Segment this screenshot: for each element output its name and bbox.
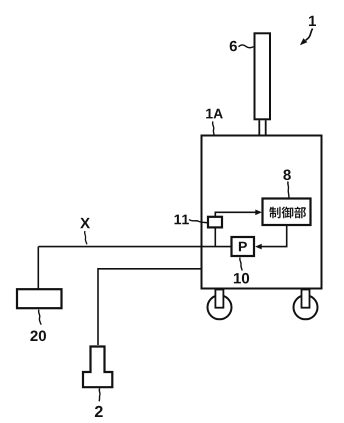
arrow leader for 1 bbox=[300, 29, 313, 46]
leader squiggle 10 bbox=[240, 258, 242, 271]
label P bbox=[239, 242, 247, 252]
rod 6 bbox=[255, 33, 271, 119]
wire below 11 bbox=[214, 228, 216, 247]
leader squiggle 6 bbox=[239, 45, 254, 48]
label 2 bbox=[95, 406, 103, 417]
pump box P 10 bbox=[232, 237, 255, 256]
leader squiggle 8 bbox=[288, 182, 289, 198]
sensor box 11 bbox=[208, 217, 222, 228]
plug 2 bbox=[83, 347, 112, 388]
label 1A bbox=[206, 109, 223, 119]
wire X bbox=[38, 246, 231, 248]
control unit text bbox=[269, 207, 306, 219]
wire 11 to control unit bbox=[215, 210, 262, 217]
control unit box 8 bbox=[263, 199, 311, 226]
label 11 bbox=[175, 215, 189, 225]
label 6 bbox=[230, 41, 237, 52]
main body box 1A bbox=[202, 136, 322, 289]
leader squiggle X bbox=[85, 231, 87, 244]
wire down to box 20 bbox=[37, 247, 39, 289]
wire to plug 2 bbox=[98, 269, 201, 345]
leader squiggle 20 bbox=[39, 310, 41, 325]
wheel left bbox=[208, 290, 232, 320]
label 20 bbox=[30, 331, 46, 342]
label 1 bbox=[309, 16, 316, 26]
leader squiggle 2 bbox=[98, 388, 101, 401]
box 20 bbox=[17, 289, 62, 308]
label X bbox=[80, 218, 90, 228]
wire control unit to P bbox=[255, 226, 287, 250]
wheel right bbox=[294, 290, 318, 320]
label 10 bbox=[234, 273, 249, 284]
rod stem bbox=[259, 120, 265, 135]
label 8 bbox=[283, 170, 290, 181]
leader squiggle 11 bbox=[189, 220, 208, 223]
leader squiggle 1A bbox=[213, 122, 216, 141]
